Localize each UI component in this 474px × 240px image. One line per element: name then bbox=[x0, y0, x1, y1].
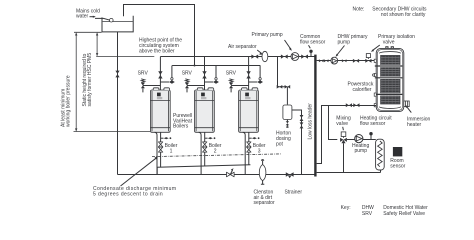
immersion heater boss bbox=[404, 101, 409, 107]
valve on flow header (left of air separator) bbox=[251, 55, 258, 59]
strainer bbox=[286, 172, 294, 178]
Clenston air & dirt separator bbox=[259, 159, 266, 184]
highest-point level line bbox=[96, 56, 154, 58]
condensate sloping collection channel bbox=[157, 165, 250, 175]
svg-text:separator: separator bbox=[254, 200, 275, 206]
dimension line 1 (at least minimum working boiler pressure) bbox=[74, 32, 151, 131]
boiler 1 condensate outlet symbol bbox=[161, 137, 172, 139]
svg-text:Low loss header: Low loss header bbox=[307, 103, 313, 140]
svg-text:valve: valve bbox=[336, 121, 348, 127]
SRV safety relief valve boiler 3 bbox=[229, 79, 249, 93]
label: Powerstock calorifier bbox=[348, 81, 374, 92]
label: Mains cold water bbox=[76, 9, 100, 20]
wire: boiler 3 return drop bbox=[243, 132, 245, 174]
label: Air separator bbox=[228, 44, 263, 54]
primary isolation valve (motorised) bbox=[365, 54, 371, 63]
valve on DHW line bbox=[353, 59, 359, 63]
DHW primary pump bbox=[331, 57, 338, 64]
boiler 1 (Purewell VariHeat) body bbox=[150, 88, 170, 133]
valve cluster on boiler 1 return riser bbox=[169, 78, 175, 84]
svg-text:SRV: SRV bbox=[182, 71, 193, 77]
svg-text:SRV: SRV bbox=[226, 71, 237, 77]
wire: boiler 3 return riser bbox=[249, 66, 261, 83]
Note text bbox=[353, 6, 427, 18]
air separator bbox=[262, 51, 268, 61]
wire: heating return bbox=[317, 143, 381, 172]
wire: boiler 1 condensate drop bbox=[160, 132, 162, 167]
svg-text:heater: heater bbox=[407, 122, 422, 128]
wire: boiler 2 return riser bbox=[205, 66, 217, 83]
return header bbox=[172, 65, 260, 67]
label: Purewell VariHeat Boilers bbox=[173, 113, 193, 129]
boiler 2 condensate outlet symbol bbox=[205, 137, 216, 139]
svg-text:SRV: SRV bbox=[138, 71, 149, 77]
primary pump bbox=[291, 53, 299, 61]
svg-text:Safety Relief Valve: Safety Relief Valve bbox=[383, 211, 425, 217]
label: Primary isolation valve bbox=[371, 34, 415, 52]
label: Heating pump bbox=[352, 143, 369, 154]
svg-text:Air separator: Air separator bbox=[228, 44, 257, 50]
boiler 3 (Purewell VariHeat) body bbox=[239, 88, 259, 133]
double valve on boiler 2 condensate drop bbox=[203, 142, 207, 152]
label: Immersion heater bbox=[405, 105, 430, 128]
isolation valve on boiler 2 flow riser bbox=[202, 71, 206, 78]
twin check valves on DHW line bbox=[319, 59, 324, 62]
svg-text:satisfy former HSC PM5: satisfy former HSC PM5 bbox=[87, 53, 93, 107]
SRV safety relief valve boiler 2 bbox=[185, 79, 205, 93]
svg-text:above the boiler: above the boiler bbox=[139, 49, 175, 55]
wire: boiler 1 flow riser bbox=[159, 57, 161, 91]
wire: open vent pipe over tank bbox=[124, 5, 195, 66]
wire: heating flow pipe bbox=[347, 139, 376, 141]
label: Clenston air & dirt separator bbox=[254, 189, 275, 206]
small valve on DHW line bbox=[342, 59, 347, 62]
svg-text:water: water bbox=[76, 14, 89, 20]
svg-text:Boilers: Boilers bbox=[173, 124, 189, 130]
wire: boiler 2 return drop bbox=[199, 132, 201, 174]
svg-text:pot: pot bbox=[276, 141, 284, 147]
valve on flow header (right of pump) bbox=[301, 55, 308, 59]
svg-text:sensor: sensor bbox=[390, 164, 405, 170]
wire: dosing pot drain to return bbox=[292, 110, 302, 175]
label: Static height required to satisfy former HSC PM5 (rotated) bbox=[82, 53, 93, 107]
flow header bbox=[160, 56, 314, 58]
svg-text:pump: pump bbox=[338, 40, 351, 46]
junction vent/return header bbox=[194, 65, 196, 67]
double valve on boiler 3 condensate drop bbox=[247, 142, 251, 152]
valve cluster on boiler 2 return riser bbox=[213, 78, 219, 84]
low loss header bar bbox=[314, 55, 316, 177]
svg-text:Primary pump: Primary pump bbox=[252, 32, 283, 38]
svg-text:Note:: Note: bbox=[353, 6, 365, 12]
wire: boiler 2 condensate drop bbox=[204, 132, 206, 166]
svg-text:5 degrees descent to drain: 5 degrees descent to drain bbox=[93, 192, 163, 198]
isolation valve on boiler 3 flow riser bbox=[246, 71, 250, 78]
svg-text:3: 3 bbox=[258, 148, 261, 154]
lever valve on main return bbox=[227, 168, 235, 177]
label: Highest point of the circulating system above the boiler bbox=[139, 38, 182, 55]
dimension line 2 (static height) bbox=[96, 32, 98, 56]
wire: drop to dosing pot bbox=[278, 57, 288, 105]
label: Heating circuit flow sensor bbox=[360, 116, 392, 127]
wire: heating circuit flow tap bbox=[329, 106, 338, 140]
heating pump bbox=[355, 135, 363, 143]
key block bbox=[341, 205, 428, 217]
svg-text:working boiler pressure: working boiler pressure bbox=[66, 75, 72, 127]
common flow sensor bbox=[309, 50, 312, 57]
wire: DHW primary flow line bbox=[317, 60, 377, 62]
wire: cold feed pipe down bbox=[117, 32, 119, 175]
svg-text:SRV: SRV bbox=[362, 211, 373, 217]
svg-text:calorifier: calorifier bbox=[353, 87, 372, 93]
double valve on boiler 1 condensate drop bbox=[158, 142, 162, 152]
label: Primary pump bbox=[252, 32, 292, 51]
room sensor bbox=[393, 147, 402, 156]
wire: DHW primary return bbox=[317, 106, 377, 164]
wire: boiler 2 flow riser bbox=[204, 57, 206, 91]
annotation arrow: condensate bbox=[121, 156, 159, 186]
svg-text:Key:: Key: bbox=[341, 205, 351, 211]
calorifier connection nubs bbox=[373, 59, 377, 107]
svg-text:1: 1 bbox=[170, 148, 173, 154]
svg-text:pump: pump bbox=[355, 148, 368, 154]
heating circuit flow sensor bbox=[369, 132, 372, 140]
valve on cold feed bbox=[115, 71, 119, 78]
label: Condensate discharge minimum 5 degrees descent to drain bbox=[93, 186, 176, 198]
label: Common flow sensor bbox=[300, 34, 326, 48]
svg-text:flow sensor: flow sensor bbox=[360, 121, 386, 127]
SRV safety relief valve boiler 1 bbox=[141, 79, 161, 93]
label: Boiler 3 bbox=[253, 143, 266, 154]
Horton dosing pot valves bbox=[277, 85, 283, 89]
svg-text:not shown for clarity: not shown for clarity bbox=[381, 12, 426, 18]
feed & expansion cistern (tank) bbox=[102, 16, 133, 32]
boiler 2 (Purewell VariHeat) body bbox=[195, 88, 215, 133]
dashed slope reference line bbox=[152, 154, 281, 157]
wire: boiler 1 return drop bbox=[155, 132, 157, 174]
valve on flow header (left of pump) bbox=[281, 55, 288, 59]
isolation valve on boiler 1 flow riser bbox=[158, 71, 162, 78]
label: Room sensor bbox=[390, 158, 405, 169]
radiator bbox=[376, 139, 385, 170]
label: At least minimum working boiler pressure (rotated) bbox=[61, 75, 72, 127]
svg-text:valve: valve bbox=[383, 40, 395, 46]
wire: boiler 3 condensate drop bbox=[248, 132, 250, 165]
label: Boiler 2 bbox=[209, 143, 222, 154]
wire: boiler 1 return riser bbox=[160, 66, 172, 83]
label: Boiler 1 bbox=[165, 143, 178, 154]
label: Mixing valve bbox=[336, 116, 351, 131]
mixing valve bbox=[340, 132, 347, 143]
Horton dosing pot bbox=[283, 105, 292, 128]
wire: main return header bbox=[118, 174, 317, 176]
label: DHW primary pump bbox=[336, 34, 368, 57]
svg-text:Strainer: Strainer bbox=[285, 189, 303, 195]
float valve bbox=[95, 18, 113, 22]
Powerstock calorifier bbox=[375, 47, 404, 112]
valve pair on DHW return bbox=[346, 103, 352, 107]
wire: boiler 3 flow riser bbox=[248, 57, 250, 91]
label: Horton dosing pot bbox=[276, 131, 291, 148]
valve cluster on boiler 3 return riser bbox=[257, 78, 263, 84]
double valve on dosing pot drain bbox=[300, 115, 304, 121]
svg-text:2: 2 bbox=[214, 148, 217, 154]
boiler 3 condensate outlet symbol bbox=[249, 137, 260, 139]
svg-text:flow sensor: flow sensor bbox=[300, 40, 326, 46]
